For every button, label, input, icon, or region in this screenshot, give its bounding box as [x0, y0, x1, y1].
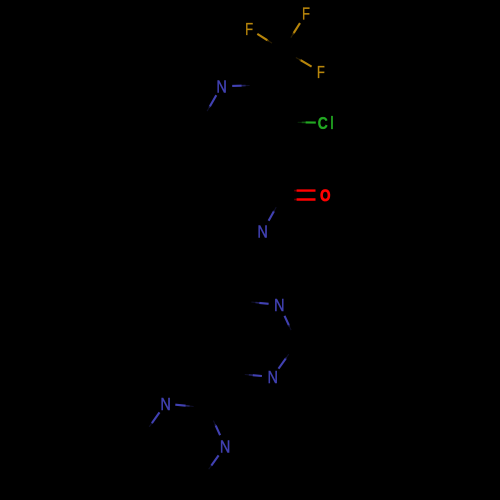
svg-text:N: N: [160, 396, 170, 414]
svg-text:N: N: [267, 369, 277, 387]
svg-text:O: O: [320, 188, 330, 205]
svg-text:N: N: [274, 297, 284, 315]
svg-text:N: N: [220, 438, 230, 456]
svg-text:N: N: [257, 224, 267, 242]
svg-text:F: F: [317, 64, 325, 83]
svg-text:C: C: [318, 115, 328, 134]
svg-text:F: F: [302, 5, 310, 24]
svg-text:F: F: [245, 20, 253, 39]
svg-text:N: N: [216, 78, 226, 96]
svg-text:l: l: [330, 114, 333, 133]
